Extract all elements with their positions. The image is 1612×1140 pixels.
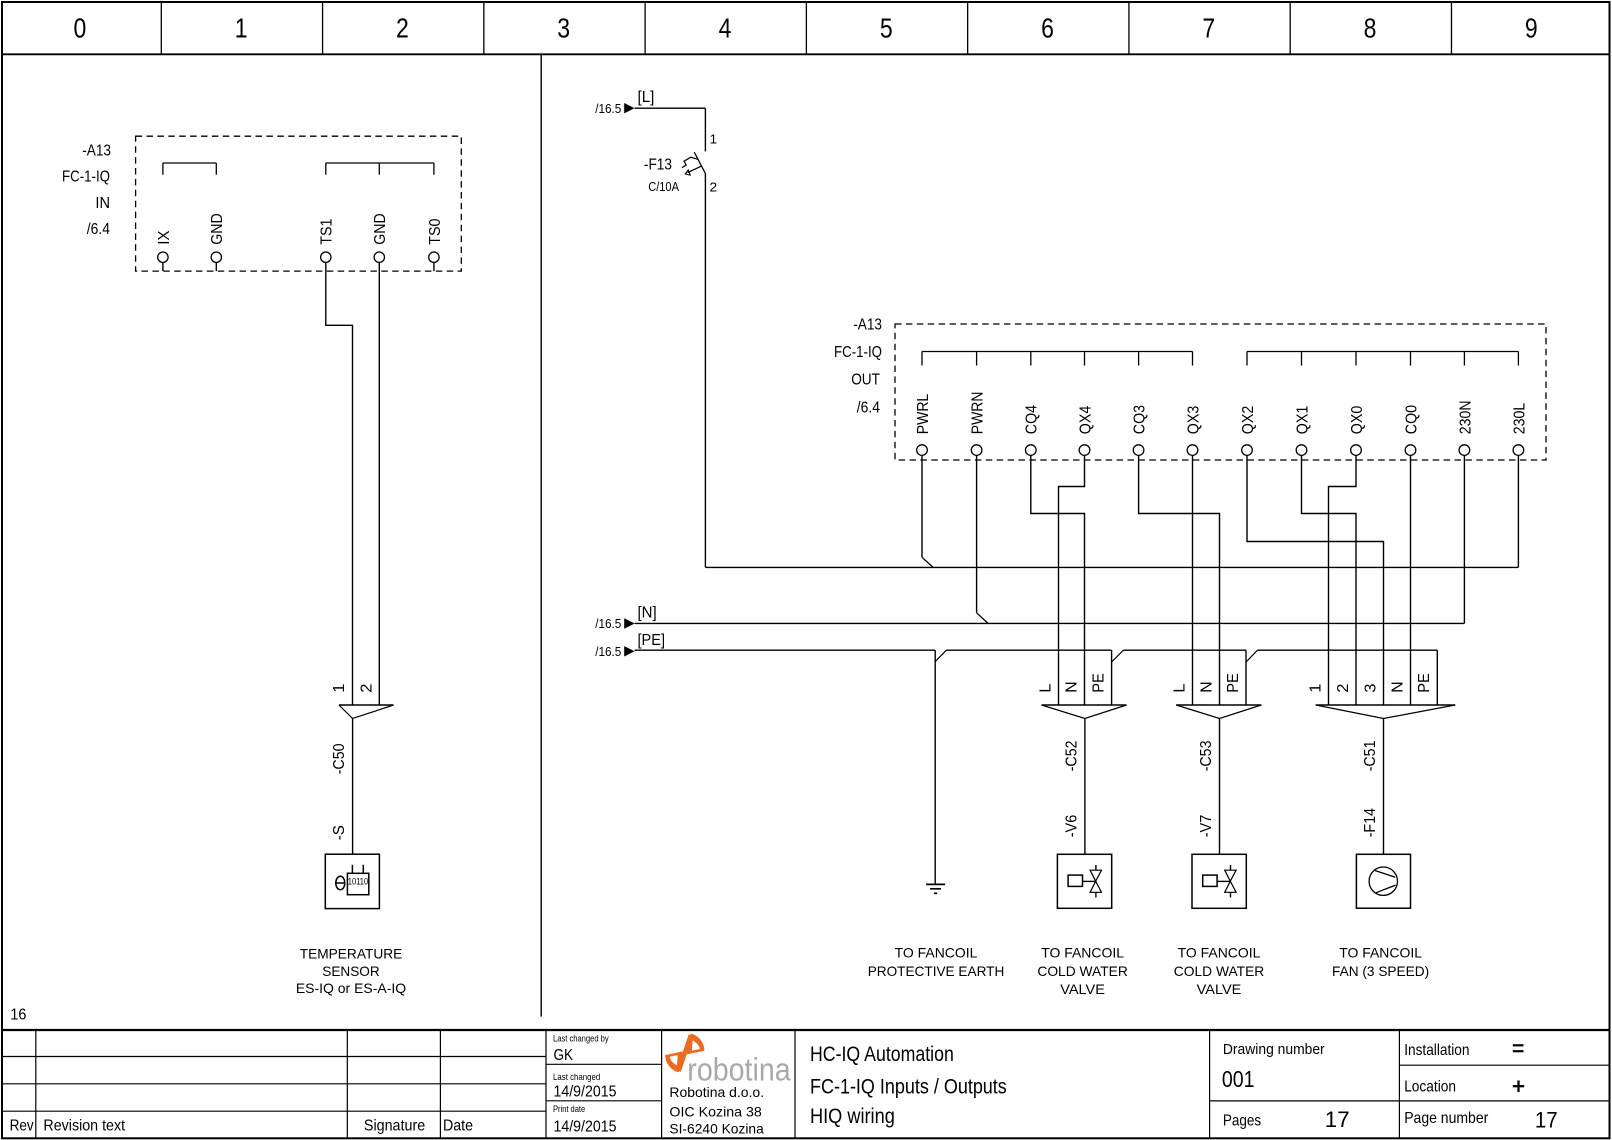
wire PE bus to cable C53 PE (1245, 650, 1247, 705)
svg-text:Revision text: Revision text (43, 1117, 125, 1134)
svg-text:GK: GK (554, 1047, 574, 1064)
svg-text:8: 8 (1364, 11, 1377, 43)
svg-text:L: L (1171, 684, 1188, 693)
svg-text:CQ0: CQ0 (1403, 405, 1420, 434)
svg-text:TO FANCOIL: TO FANCOIL (1178, 944, 1261, 960)
svg-text:-C52: -C52 (1063, 740, 1080, 771)
svg-text:Last changed: Last changed (553, 1072, 600, 1083)
svg-text:2: 2 (358, 684, 375, 693)
svg-text:PE: PE (1416, 673, 1433, 693)
svg-text:-F13: -F13 (644, 156, 672, 173)
svg-text:4: 4 (719, 11, 732, 43)
svg-text:SENSOR: SENSOR (322, 963, 379, 979)
svg-text:10110: 10110 (348, 877, 368, 888)
wire PWRN to N bus (976, 455, 978, 612)
svg-text:PROTECTIVE EARTH: PROTECTIVE EARTH (868, 963, 1005, 979)
svg-text:QX0: QX0 (1349, 406, 1366, 435)
ground symbol (926, 883, 945, 885)
svg-text:FC-1-IQ: FC-1-IQ (62, 168, 110, 185)
svg-text:2: 2 (710, 180, 718, 195)
svg-text:N: N (1389, 681, 1406, 692)
wire QX2 to cable C51 conductor 3 (1247, 455, 1384, 705)
wire TS1 to cable C50 conductor 1 (326, 262, 353, 705)
svg-text:PWRN: PWRN (970, 392, 987, 435)
fan box (1356, 854, 1410, 908)
wire CQ3 to cable C53 N (1139, 455, 1220, 705)
svg-text:9: 9 (1525, 11, 1538, 43)
svg-text:Pages: Pages (1223, 1113, 1261, 1130)
svg-text:-F14: -F14 (1362, 808, 1379, 837)
svg-text:16: 16 (10, 1007, 26, 1024)
cable -C51 marker (1316, 704, 1456, 706)
wire PE bus to cable C51 PE (1436, 650, 1438, 705)
svg-text:2: 2 (1335, 684, 1352, 693)
svg-text:Last changed by: Last changed by (553, 1034, 609, 1045)
svg-text:FAN (3 SPEED): FAN (3 SPEED) (1332, 963, 1429, 979)
valve actuator (1068, 875, 1082, 886)
svg-text:[N]: [N] (638, 604, 657, 621)
module A13 IN dashed box (136, 136, 462, 271)
svg-text:1: 1 (235, 11, 248, 43)
svg-text:/16.5: /16.5 (595, 644, 621, 659)
cable -C53 marker (1176, 704, 1261, 706)
wire QX4 to cable C52 L (1059, 455, 1085, 705)
svg-text:CQ3: CQ3 (1132, 405, 1149, 434)
svg-text:Rev: Rev (10, 1117, 34, 1134)
wire [L] feed to breaker F13 (635, 107, 706, 109)
svg-text:/6.4: /6.4 (857, 399, 880, 416)
logo panel (794, 1030, 796, 1139)
drawing number panel (1209, 1030, 1211, 1139)
svg-text:/16.5: /16.5 (595, 101, 621, 116)
svg-text:Drawing number: Drawing number (1223, 1042, 1325, 1058)
wire QX3 to cable C53 L (1192, 455, 1194, 705)
svg-text:/6.4: /6.4 (87, 221, 110, 238)
wire PWRL to L bus (921, 455, 923, 557)
wire cable C50 to sensor (352, 719, 354, 855)
wire cable -C52 to device (1084, 719, 1086, 855)
temperature sensor S box (325, 854, 379, 908)
svg-text:001: 001 (1222, 1066, 1255, 1092)
svg-text:QX3: QX3 (1185, 406, 1202, 435)
svg-text:PE: PE (1225, 673, 1242, 693)
column ruler bottom line (2, 53, 1610, 55)
svg-text:ES-IQ or ES-A-IQ: ES-IQ or ES-A-IQ (296, 980, 406, 996)
valve box (1192, 854, 1246, 908)
wire QX1 to cable C51 conductor 2 (1302, 455, 1357, 705)
svg-text:Installation: Installation (1404, 1042, 1469, 1059)
svg-text:FC-1-IQ Inputs / Outputs: FC-1-IQ Inputs / Outputs (810, 1073, 1007, 1098)
sensor chip 10110 (347, 873, 368, 894)
svg-text:0: 0 (74, 11, 87, 43)
svg-text:1: 1 (331, 684, 348, 693)
svg-text:230L: 230L (1511, 403, 1528, 435)
PE bus branch diagonals (935, 650, 946, 661)
wire 230L to L bus (1517, 455, 1519, 567)
svg-text:-A13: -A13 (853, 316, 882, 333)
svg-text:17: 17 (1535, 1108, 1558, 1133)
svg-text:5: 5 (880, 11, 893, 43)
svg-text:-C51: -C51 (1362, 740, 1379, 771)
svg-text:FC-1-IQ: FC-1-IQ (834, 344, 882, 361)
svg-text:COLD WATER: COLD WATER (1037, 963, 1128, 979)
svg-text:14/9/2015: 14/9/2015 (554, 1119, 617, 1136)
wire 230N to N bus (1463, 455, 1465, 623)
svg-text:TO FANCOIL: TO FANCOIL (1041, 944, 1124, 960)
wire CQ4 to cable C52 N (1031, 455, 1085, 705)
last-changed panel (661, 1030, 663, 1139)
wire breaker F13 to L bus (704, 174, 706, 568)
svg-text:3: 3 (557, 11, 570, 43)
svg-text:Print date: Print date (553, 1104, 585, 1115)
svg-text:Signature: Signature (364, 1117, 425, 1134)
svg-text:-C50: -C50 (331, 743, 348, 774)
svg-text:VALVE: VALVE (1060, 981, 1105, 997)
robotina logo mark (679, 1035, 691, 1071)
svg-text:-S: -S (331, 825, 348, 840)
svg-text:6: 6 (1041, 11, 1054, 43)
cable C50 marker (339, 704, 394, 706)
central divider line (540, 54, 542, 1016)
svg-text:TS1: TS1 (319, 218, 336, 244)
OUT connector bracket QX2-230L (1247, 351, 1518, 353)
svg-text:1: 1 (1307, 684, 1324, 693)
svg-text:[L]: [L] (638, 89, 655, 106)
svg-text:TO FANCOIL: TO FANCOIL (895, 944, 978, 960)
sensor theta symbol (336, 876, 345, 890)
valve symbol (1090, 870, 1101, 881)
svg-text:QX1: QX1 (1294, 406, 1311, 435)
title block top border (2, 1029, 1610, 1031)
svg-text:N: N (1063, 681, 1080, 692)
svg-text:7: 7 (1202, 11, 1215, 43)
svg-text:OUT: OUT (851, 371, 880, 388)
svg-text:Robotina d.o.o.: Robotina d.o.o. (669, 1084, 764, 1100)
svg-text:IX: IX (156, 230, 173, 245)
svg-text:14/9/2015: 14/9/2015 (554, 1084, 617, 1101)
svg-text:QX4: QX4 (1077, 406, 1094, 435)
svg-text:N: N (1198, 681, 1215, 692)
column ruler cells (160, 2, 162, 54)
svg-text:-A13: -A13 (82, 142, 111, 159)
wire PE bus to cable C52 PE (1111, 650, 1113, 705)
N bus wire (635, 622, 1465, 624)
valve symbol (1225, 870, 1236, 881)
L bus wire (705, 566, 1518, 568)
svg-text:Date: Date (443, 1117, 473, 1134)
wire CQ0 to cable C51 N (1410, 455, 1412, 705)
IN connector bracket IX-GND (163, 162, 216, 164)
wire PE bus to earth (934, 650, 936, 884)
svg-text:/16.5: /16.5 (595, 616, 621, 631)
wire QX0 to cable C51 conductor 1 (1329, 455, 1357, 705)
svg-text:C/10A: C/10A (648, 179, 679, 194)
svg-text:GND: GND (372, 213, 389, 245)
svg-text:HIQ wiring: HIQ wiring (810, 1103, 895, 1128)
svg-text:robotina: robotina (687, 1052, 791, 1088)
svg-text:-V6: -V6 (1063, 815, 1080, 838)
svg-text:COLD WATER: COLD WATER (1174, 963, 1265, 979)
module A13 OUT dashed box (895, 324, 1546, 460)
svg-text:CQ4: CQ4 (1024, 405, 1041, 434)
svg-text:2: 2 (396, 11, 409, 43)
wire cable -C53 to device (1219, 719, 1221, 855)
svg-text:[PE]: [PE] (638, 632, 666, 649)
valve actuator (1203, 875, 1217, 886)
revision table lines (2, 1056, 546, 1058)
IN connector bracket TS1-GND-TS0 (326, 162, 434, 164)
wire GND to cable C50 conductor 2 (378, 262, 380, 705)
svg-text:GND: GND (209, 213, 226, 245)
svg-text:1: 1 (710, 132, 718, 147)
svg-text:OIC Kozina 38: OIC Kozina 38 (669, 1104, 762, 1120)
svg-text:L: L (1037, 684, 1054, 693)
svg-text:HC-IQ Automation: HC-IQ Automation (810, 1041, 954, 1066)
cable -C52 marker (1042, 704, 1127, 706)
svg-text:PWRL: PWRL (915, 394, 932, 434)
svg-text:17: 17 (1325, 1107, 1350, 1132)
installation-location panel (1398, 1030, 1400, 1139)
svg-text:-C53: -C53 (1198, 740, 1215, 771)
svg-text:TO FANCOIL: TO FANCOIL (1339, 944, 1422, 960)
svg-text:3: 3 (1362, 684, 1379, 693)
svg-text:QX2: QX2 (1240, 406, 1257, 435)
valve box (1057, 854, 1111, 908)
svg-text:PE: PE (1090, 673, 1107, 693)
svg-text:SI-6240 Kozina: SI-6240 Kozina (669, 1121, 764, 1137)
OUT connector bracket PWRL-QX3 (922, 351, 1193, 353)
fan symbol (1369, 867, 1397, 895)
PE bus wire (635, 649, 936, 651)
svg-text:TS0: TS0 (427, 218, 444, 244)
svg-text:230N: 230N (1457, 401, 1474, 435)
svg-text:Location: Location (1404, 1078, 1456, 1095)
svg-text:VALVE: VALVE (1197, 981, 1242, 997)
circuit breaker F13 symbol (694, 152, 705, 173)
svg-text:-V7: -V7 (1198, 815, 1215, 838)
svg-text:Page number: Page number (1404, 1110, 1489, 1127)
svg-text:TEMPERATURE: TEMPERATURE (300, 945, 403, 961)
wire cable -C51 to device (1383, 719, 1385, 855)
svg-text:IN: IN (95, 195, 110, 212)
